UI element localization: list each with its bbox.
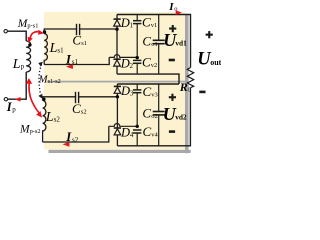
wire Ls1 bottom to riser (Is1 loop) xyxy=(44,57,109,64)
wire top rail to output corner xyxy=(117,15,191,68)
svg-text:v1: v1 xyxy=(151,22,158,29)
svg-text:L: L xyxy=(45,110,54,125)
inductor Lp xyxy=(26,41,30,72)
box shadow right xyxy=(185,15,189,153)
wire A1 dot down to D2 xyxy=(116,29,118,59)
svg-text:D: D xyxy=(120,84,130,98)
mutual coupling arrow Ms1-s2 (black dotted, double head) xyxy=(39,65,42,95)
capacitor Cv3 xyxy=(133,84,141,126)
polarity dot Ls2 xyxy=(42,98,45,101)
svg-text:C: C xyxy=(72,101,81,116)
svg-text:C: C xyxy=(142,33,151,48)
diode D4 xyxy=(114,128,121,146)
svg-text:D: D xyxy=(120,16,130,30)
label + (Uout) xyxy=(206,31,213,38)
svg-text:C: C xyxy=(142,14,151,29)
current arrow Is2 (red) xyxy=(63,142,70,147)
label + (Uvd1) xyxy=(169,25,176,32)
svg-text:C: C xyxy=(143,84,152,99)
node dot A2 xyxy=(116,95,119,98)
diode D1 xyxy=(114,15,121,30)
current arrow Io (red) xyxy=(176,10,182,15)
secondary cell box 2 (lower beige panel) xyxy=(44,81,185,150)
svg-text:R: R xyxy=(179,80,188,94)
svg-text:p-s1: p-s1 xyxy=(27,22,38,29)
svg-text:o: o xyxy=(174,6,177,13)
mutual coupling arrow Mp-s2 (red, double head) xyxy=(29,83,39,114)
wire mid lower (riser to Cv midpoint, hop over diode column) xyxy=(109,124,137,127)
svg-text:D: D xyxy=(120,125,130,139)
terminal T1 (top-left input) xyxy=(4,30,7,33)
wire node A2 (Ls2 top to D3/D4 midpoint) xyxy=(43,97,117,101)
inductor Ls1 xyxy=(44,34,47,65)
svg-text:v3: v3 xyxy=(151,91,158,98)
svg-text:1: 1 xyxy=(130,23,133,30)
wire upper cell bottom rail with step down xyxy=(117,74,179,84)
node dot Cv3-Cv4 midpoint xyxy=(136,125,139,128)
diode D2 xyxy=(114,59,121,74)
polarity dot Lp xyxy=(28,43,31,46)
svg-text:L: L xyxy=(49,41,58,56)
svg-text:s2: s2 xyxy=(54,115,61,123)
svg-text:s1: s1 xyxy=(81,40,87,47)
node dot Cv1-Cv2 midpoint xyxy=(136,56,139,59)
label + (Uvd2) xyxy=(169,94,176,101)
box shadow bottom xyxy=(49,150,191,153)
svg-text:vd2: vd2 xyxy=(175,112,187,121)
svg-text:s1-s2: s1-s2 xyxy=(48,78,61,85)
capacitor Cv1 xyxy=(133,15,141,58)
svg-text:p: p xyxy=(21,63,25,71)
terminal T2 (bottom-left input) xyxy=(4,98,7,101)
svg-text:v4: v4 xyxy=(151,132,158,139)
svg-text:C: C xyxy=(142,54,151,69)
svg-text:o1: o1 xyxy=(151,41,158,48)
box shadow divider xyxy=(47,81,185,83)
wire lower cell top rail xyxy=(117,83,179,85)
wire Lp bottom to T2 xyxy=(8,72,26,99)
wire Ls2 bottom to riser (Is2 loop) xyxy=(43,126,109,142)
svg-text:C: C xyxy=(143,124,152,139)
capacitor Co2 xyxy=(153,84,165,146)
label - (Uout) xyxy=(199,91,205,94)
wire node A1 (Ls1 top to D1/D2 midpoint) xyxy=(44,29,117,34)
svg-text:C: C xyxy=(142,105,151,120)
svg-text:s2: s2 xyxy=(72,136,79,144)
svg-text:o2: o2 xyxy=(151,113,158,120)
svg-text:out: out xyxy=(210,58,221,67)
wire right rail below R0 to bottom rail xyxy=(117,88,190,146)
capacitor Co1 xyxy=(153,15,165,75)
label - (Uvd2) xyxy=(169,130,175,133)
svg-text:vd1: vd1 xyxy=(175,38,187,47)
polarity dot Ls1 xyxy=(43,30,46,33)
secondary cell box 1 (upper beige panel) xyxy=(44,12,185,81)
svg-text:s2: s2 xyxy=(81,108,87,115)
wire A2 dot down to D4 xyxy=(116,97,118,128)
svg-text:p: p xyxy=(12,105,16,113)
capacitor Cs1 plates xyxy=(77,24,80,35)
node dot A1 xyxy=(115,28,118,31)
svg-text:C: C xyxy=(72,33,81,48)
svg-text:3: 3 xyxy=(130,90,134,97)
current arrow Ip (red) xyxy=(15,97,21,102)
inductor Ls2 xyxy=(43,101,46,143)
capacitor Cv2 xyxy=(133,60,141,74)
svg-text:p-s2: p-s2 xyxy=(30,128,41,135)
svg-text:D: D xyxy=(120,56,130,70)
label - (Uvd1) xyxy=(169,59,175,62)
svg-text:I: I xyxy=(168,1,174,13)
wire mid upper (riser to Cv midpoint, hop over diode column) xyxy=(109,55,137,58)
capacitor Cv4 xyxy=(133,130,141,146)
svg-text:L: L xyxy=(12,57,21,72)
mutual coupling arrow Mp-s1 (red, double head) xyxy=(30,32,39,39)
capacitor Cs2 plates xyxy=(76,92,79,103)
current arrow Is1 (red) xyxy=(66,64,73,69)
resistor R0 (zigzag) xyxy=(187,68,193,88)
svg-text:s1: s1 xyxy=(57,46,64,54)
svg-text:v2: v2 xyxy=(151,62,158,69)
diode D3 xyxy=(114,84,121,97)
wire T1 to Lp top xyxy=(8,31,27,41)
